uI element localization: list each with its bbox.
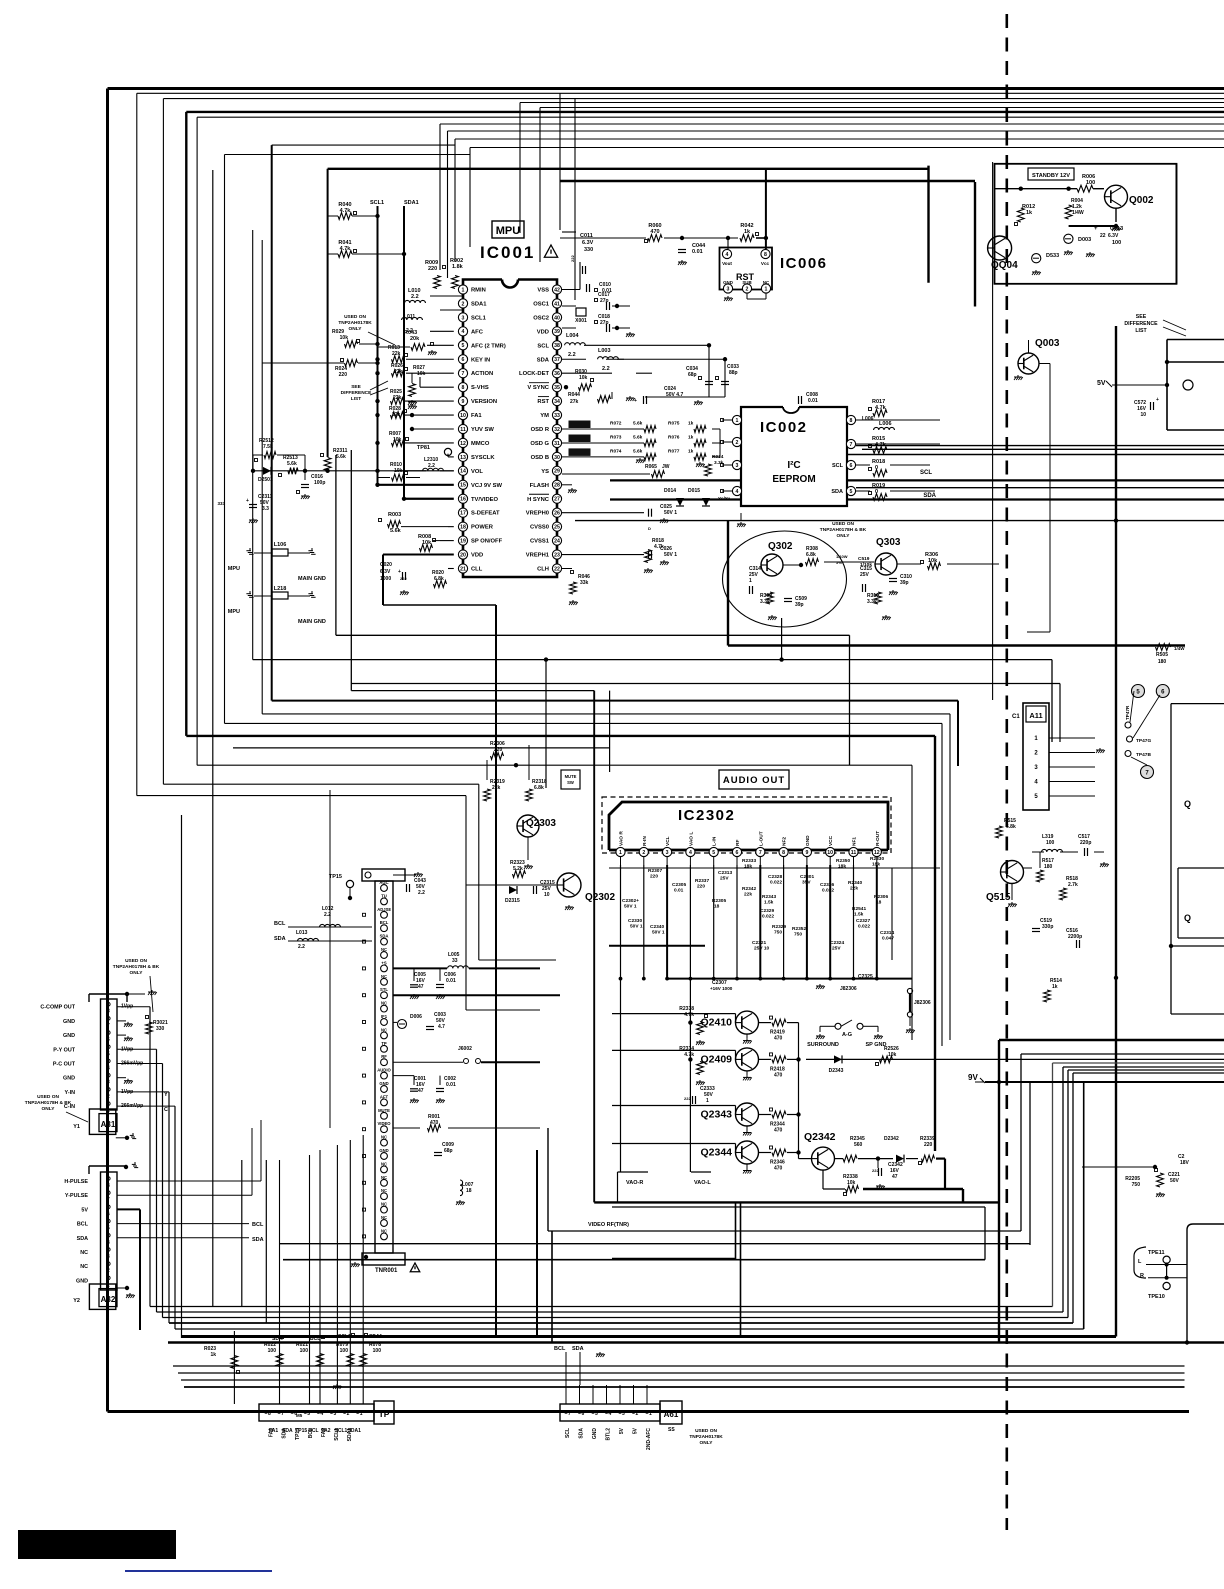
svg-text:1000: 1000 xyxy=(380,576,391,582)
svg-text:12: 12 xyxy=(460,441,466,447)
svg-text:AUDIO OUT: AUDIO OUT xyxy=(723,775,785,786)
svg-text:NC: NC xyxy=(381,1135,387,1140)
svg-text:VIDEO: VIDEO xyxy=(377,1121,391,1126)
svg-text:10k: 10k xyxy=(340,335,349,341)
svg-text:3.3k: 3.3k xyxy=(714,460,724,466)
svg-text:39: 39 xyxy=(554,329,560,335)
svg-text:ONLY: ONLY xyxy=(130,970,144,976)
svg-text:6.3V: 6.3V xyxy=(1108,233,1119,239)
svg-text:1/4W: 1/4W xyxy=(1072,210,1084,216)
svg-text:CLH: CLH xyxy=(537,567,549,573)
svg-text:SDA: SDA xyxy=(537,357,550,363)
svg-text:3.3: 3.3 xyxy=(262,506,269,512)
svg-text:C2329: C2329 xyxy=(760,908,774,914)
svg-text:100: 100 xyxy=(268,1348,277,1354)
svg-text:TNP2AH0178K: TNP2AH0178K xyxy=(689,1434,723,1440)
svg-text:0.022: 0.022 xyxy=(858,924,870,930)
svg-text:Q2410: Q2410 xyxy=(700,1017,732,1029)
svg-text:2: 2 xyxy=(636,1411,639,1417)
svg-text:1: 1 xyxy=(649,1411,652,1417)
svg-text:2: 2 xyxy=(736,440,739,446)
svg-text:GND: GND xyxy=(76,1278,88,1284)
svg-text:A32: A32 xyxy=(101,1295,116,1304)
svg-text:MPU: MPU xyxy=(228,566,240,572)
svg-text:VCL: VCL xyxy=(665,836,671,846)
svg-text:17: 17 xyxy=(460,511,466,517)
svg-text:3: 3 xyxy=(666,850,669,856)
svg-text:C2324: C2324 xyxy=(830,940,844,946)
svg-text:ONLY: ONLY xyxy=(837,533,851,539)
svg-text:L006: L006 xyxy=(862,416,874,422)
svg-text:3: 3 xyxy=(622,1411,625,1417)
svg-text:22k: 22k xyxy=(850,886,858,892)
svg-text:D2315: D2315 xyxy=(505,898,520,904)
svg-text:7: 7 xyxy=(107,1197,110,1203)
svg-text:SYSCLK: SYSCLK xyxy=(471,455,495,461)
svg-text:18: 18 xyxy=(460,525,466,531)
svg-text:Q: Q xyxy=(1184,913,1191,923)
svg-text:2: 2 xyxy=(746,286,749,292)
svg-text:Y-PULSE: Y-PULSE xyxy=(65,1193,88,1199)
svg-text:C020: C020 xyxy=(380,562,392,568)
svg-text:Q002: Q002 xyxy=(1129,195,1154,206)
svg-text:GND: GND xyxy=(592,1428,598,1440)
svg-text:R018: R018 xyxy=(872,459,885,465)
svg-text:39p: 39p xyxy=(795,602,804,608)
svg-text:Q2343: Q2343 xyxy=(700,1109,732,1121)
svg-text:R2330: R2330 xyxy=(870,856,884,862)
svg-text:BCL: BCL xyxy=(308,1428,314,1438)
svg-text:L003: L003 xyxy=(598,348,611,354)
svg-text:1k: 1k xyxy=(1026,210,1033,216)
svg-text:I²C: I²C xyxy=(787,460,800,471)
svg-text:D006: D006 xyxy=(410,1014,422,1020)
svg-text:C2325: C2325 xyxy=(858,974,873,980)
svg-text:Q2409: Q2409 xyxy=(700,1053,732,1065)
svg-text:SDA: SDA xyxy=(380,934,389,939)
svg-text:EEPROM: EEPROM xyxy=(772,474,815,485)
svg-text:Y-IN: Y-IN xyxy=(65,1090,76,1096)
svg-text:IC2302: IC2302 xyxy=(678,807,735,824)
svg-text:C2302+: C2302+ xyxy=(622,898,639,904)
svg-text:5: 5 xyxy=(712,850,715,856)
svg-text:2: 2 xyxy=(642,850,645,856)
svg-text:L011: L011 xyxy=(404,314,415,320)
svg-text:GND: GND xyxy=(805,835,811,846)
svg-text:SCL1: SCL1 xyxy=(370,200,384,206)
svg-text:TNP2AH0178K: TNP2AH0178K xyxy=(338,320,372,326)
svg-text:GND: GND xyxy=(63,1019,75,1025)
svg-text:GND: GND xyxy=(723,280,733,285)
svg-text:A61: A61 xyxy=(664,1410,679,1419)
svg-text:NF1: NF1 xyxy=(852,837,858,846)
svg-text:1/4W: 1/4W xyxy=(1174,646,1185,651)
svg-text:2: 2 xyxy=(107,1094,110,1100)
svg-text:X001: X001 xyxy=(575,318,587,324)
svg-text:25V: 25V xyxy=(860,572,870,578)
svg-text:14: 14 xyxy=(460,469,466,475)
svg-text:2.7k: 2.7k xyxy=(1068,882,1078,888)
svg-text:VAO L: VAO L xyxy=(688,832,694,846)
svg-text:P-C OUT: P-C OUT xyxy=(53,1062,76,1068)
svg-text:MMCO: MMCO xyxy=(471,441,490,447)
svg-text:7: 7 xyxy=(568,1411,571,1417)
svg-text:19: 19 xyxy=(460,538,466,544)
svg-text:USED ON: USED ON xyxy=(695,1428,717,1434)
svg-text:BCL: BCL xyxy=(252,1222,264,1228)
svg-text:R-IN: R-IN xyxy=(642,836,648,846)
svg-text:C-COMP OUT: C-COMP OUT xyxy=(40,1005,75,1011)
svg-text:P-Y OUT: P-Y OUT xyxy=(53,1047,75,1053)
svg-text:1: 1 xyxy=(462,287,465,293)
svg-text:50V 4.7: 50V 4.7 xyxy=(666,392,683,398)
svg-text:JW: JW xyxy=(662,464,670,470)
svg-text:330p: 330p xyxy=(1042,924,1053,930)
svg-text:34: 34 xyxy=(554,399,560,405)
svg-text:NC: NC xyxy=(381,1215,387,1220)
svg-text:100: 100 xyxy=(340,1348,349,1354)
svg-text:50V: 50V xyxy=(1170,1178,1180,1184)
svg-text:NC: NC xyxy=(381,1027,387,1032)
svg-text:SCL: SCL xyxy=(565,1428,571,1438)
svg-text:USED ON: USED ON xyxy=(125,958,147,964)
svg-text:3: 3 xyxy=(334,1411,337,1417)
svg-text:+: + xyxy=(1156,397,1159,403)
svg-text:5: 5 xyxy=(107,1226,110,1232)
svg-text:R075: R075 xyxy=(668,421,680,427)
svg-text:SDA: SDA xyxy=(831,489,843,495)
svg-text:100: 100 xyxy=(1046,840,1055,846)
svg-text:0.01: 0.01 xyxy=(446,978,456,984)
svg-text:16: 16 xyxy=(460,497,466,503)
svg-text:1: 1 xyxy=(736,418,739,424)
svg-text:1: 1 xyxy=(706,1098,709,1104)
svg-text:4.7k: 4.7k xyxy=(684,1052,694,1058)
svg-text:28: 28 xyxy=(554,483,560,489)
svg-text:Q003: Q003 xyxy=(1035,338,1060,349)
svg-text:22k: 22k xyxy=(492,785,501,791)
svg-text:2: 2 xyxy=(462,301,465,307)
svg-text:VREPH0: VREPH0 xyxy=(526,511,549,517)
svg-text:0.01: 0.01 xyxy=(692,249,703,255)
svg-text:R-OUT: R-OUT xyxy=(875,831,881,846)
svg-text:5.6k: 5.6k xyxy=(633,448,643,454)
svg-text:1k: 1k xyxy=(688,448,694,454)
svg-text:R2333: R2333 xyxy=(742,858,756,864)
svg-text:35: 35 xyxy=(554,385,560,391)
svg-text:5V: 5V xyxy=(633,1427,639,1434)
svg-text:H-PULSE: H-PULSE xyxy=(64,1179,88,1185)
svg-text:C2321: C2321 xyxy=(752,940,766,946)
svg-text:S-VHS: S-VHS xyxy=(471,385,489,391)
svg-text:RF: RF xyxy=(735,840,741,846)
svg-text:J82306: J82306 xyxy=(840,986,857,992)
svg-text:18k: 18k xyxy=(744,864,752,870)
svg-text:A31: A31 xyxy=(101,1120,116,1129)
svg-text:5%: 5% xyxy=(836,560,842,565)
svg-text:220: 220 xyxy=(650,874,658,880)
svg-text:23: 23 xyxy=(554,552,560,558)
svg-text:222: 222 xyxy=(400,576,407,581)
svg-text:50V 1: 50V 1 xyxy=(664,510,677,516)
svg-text:A-G: A-G xyxy=(842,1032,852,1038)
svg-text:R2307: R2307 xyxy=(648,868,662,874)
svg-text:27k: 27k xyxy=(570,399,579,405)
svg-text:21: 21 xyxy=(460,566,466,572)
svg-text:5.6k: 5.6k xyxy=(336,454,346,460)
svg-text:32: 32 xyxy=(554,427,560,433)
svg-text:USED ON: USED ON xyxy=(37,1094,59,1100)
svg-text:D: D xyxy=(648,526,651,531)
svg-text:SDA: SDA xyxy=(579,1428,585,1439)
svg-text:NC: NC xyxy=(80,1264,88,1270)
svg-text:22: 22 xyxy=(1100,233,1106,239)
svg-text:TP: TP xyxy=(379,1409,390,1419)
svg-text:10: 10 xyxy=(1140,412,1146,418)
svg-text:5.6k: 5.6k xyxy=(287,461,297,467)
svg-text:15: 15 xyxy=(460,483,466,489)
svg-text:SUB: SUB xyxy=(742,280,751,285)
svg-text:RMIN: RMIN xyxy=(471,288,486,294)
svg-text:5: 5 xyxy=(595,1411,598,1417)
svg-text:0.022: 0.022 xyxy=(770,880,782,886)
svg-text:SCL1: SCL1 xyxy=(471,315,487,321)
svg-text:8: 8 xyxy=(764,252,767,258)
svg-text:C: C xyxy=(164,1107,168,1113)
svg-text:R2337: R2337 xyxy=(695,878,709,884)
svg-text:1: 1 xyxy=(749,578,752,584)
svg-text:BCL: BCL xyxy=(274,921,286,927)
svg-text:1/10W: 1/10W xyxy=(836,554,848,559)
svg-text:C2327: C2327 xyxy=(856,918,870,924)
svg-text:+S: +S xyxy=(381,960,386,965)
svg-text:FA1: FA1 xyxy=(269,1428,275,1437)
svg-text:2.2: 2.2 xyxy=(411,294,419,300)
svg-text:50V 1: 50V 1 xyxy=(664,552,677,558)
svg-text:R065: R065 xyxy=(645,464,657,470)
svg-text:12: 12 xyxy=(874,850,880,856)
svg-text:0.022: 0.022 xyxy=(762,914,774,920)
svg-text:Q: Q xyxy=(1184,799,1191,809)
svg-text:2.2: 2.2 xyxy=(298,944,305,950)
svg-text:VAO-L: VAO-L xyxy=(694,1180,711,1186)
svg-text:C2305: C2305 xyxy=(672,882,686,888)
svg-text:20k: 20k xyxy=(410,336,420,342)
svg-text:9: 9 xyxy=(462,399,465,405)
svg-text:220: 220 xyxy=(697,884,705,890)
svg-text:2: 2 xyxy=(347,1411,350,1417)
svg-text:SDA: SDA xyxy=(252,1237,264,1243)
svg-text:TP: TP xyxy=(381,1041,387,1046)
svg-text:D015: D015 xyxy=(688,488,700,494)
svg-text:5.6k: 5.6k xyxy=(390,528,402,534)
svg-text:6: 6 xyxy=(107,1037,110,1043)
svg-text:5V: 5V xyxy=(1097,380,1106,387)
svg-text:LIST: LIST xyxy=(351,396,361,402)
svg-text:5: 5 xyxy=(462,343,465,349)
svg-text:4: 4 xyxy=(689,850,692,856)
svg-text:SCL: SCL xyxy=(537,343,549,349)
svg-text:5V: 5V xyxy=(81,1207,88,1213)
svg-text:9V: 9V xyxy=(968,1073,978,1082)
svg-text:13: 13 xyxy=(460,455,466,461)
svg-text:TP81: TP81 xyxy=(417,445,430,451)
svg-text:10k: 10k xyxy=(417,371,426,377)
svg-text:NC: NC xyxy=(763,280,770,285)
svg-text:100: 100 xyxy=(1086,180,1095,186)
svg-text:27: 27 xyxy=(554,497,560,503)
svg-text:4: 4 xyxy=(726,252,729,258)
svg-text:L-IN: L-IN xyxy=(712,836,718,846)
svg-text:470: 470 xyxy=(774,1166,783,1172)
svg-text:AFC (2 TMR): AFC (2 TMR) xyxy=(471,343,506,349)
svg-text:22k: 22k xyxy=(744,892,752,898)
svg-text:IC001: IC001 xyxy=(480,243,535,262)
svg-text:3.3k: 3.3k xyxy=(867,599,877,605)
svg-text:D533: D533 xyxy=(1046,253,1059,259)
svg-text:R077: R077 xyxy=(668,448,680,454)
svg-text:ONLY: ONLY xyxy=(700,1440,714,1446)
svg-text:TPE11: TPE11 xyxy=(1148,1250,1165,1256)
svg-text:31: 31 xyxy=(554,441,560,447)
svg-text:4: 4 xyxy=(736,489,739,495)
svg-text:VSS: VSS xyxy=(537,288,549,294)
svg-text:330: 330 xyxy=(584,247,593,253)
svg-text:AUDIO: AUDIO xyxy=(377,1068,391,1073)
svg-text:MAIN GND: MAIN GND xyxy=(298,576,326,582)
svg-text:50V 1: 50V 1 xyxy=(630,924,643,930)
svg-text:0.01: 0.01 xyxy=(674,888,684,894)
svg-text:6: 6 xyxy=(850,463,853,469)
svg-text:SW: SW xyxy=(567,780,574,785)
svg-text:R2329: R2329 xyxy=(772,924,786,930)
svg-text:C2313: C2313 xyxy=(718,870,732,876)
svg-text:R003: R003 xyxy=(388,512,401,518)
svg-text:20: 20 xyxy=(460,552,466,558)
svg-text:26: 26 xyxy=(554,511,560,517)
svg-text:SDA1: SDA1 xyxy=(404,200,419,206)
svg-text:39p: 39p xyxy=(900,580,909,586)
svg-text:10: 10 xyxy=(460,413,466,419)
svg-text:222: 222 xyxy=(872,1168,879,1173)
svg-text:41: 41 xyxy=(554,301,560,307)
svg-text:SDA: SDA xyxy=(572,1346,584,1352)
svg-text:D003: D003 xyxy=(1078,237,1091,243)
svg-text:TV/VIDEO: TV/VIDEO xyxy=(471,497,499,503)
svg-text:D014: D014 xyxy=(664,488,676,494)
svg-text:SDA: SDA xyxy=(282,1428,288,1439)
svg-text:TNR001: TNR001 xyxy=(375,1268,398,1274)
svg-text:5V: 5V xyxy=(619,1427,625,1434)
svg-text:USED ON: USED ON xyxy=(832,521,854,527)
svg-text:40: 40 xyxy=(554,315,560,321)
svg-text:L006: L006 xyxy=(879,421,892,427)
svg-text:4: 4 xyxy=(107,1240,110,1246)
svg-text:SDA: SDA xyxy=(923,493,936,499)
svg-text:2.2: 2.2 xyxy=(568,352,576,358)
svg-text:2ND-AFC: 2ND-AFC xyxy=(646,1428,652,1450)
svg-text:L218: L218 xyxy=(274,586,287,592)
svg-text:SURROUND: SURROUND xyxy=(807,1042,839,1048)
svg-text:SEE: SEE xyxy=(1136,314,1147,320)
svg-text:NC: NC xyxy=(381,947,387,952)
svg-text:27p: 27p xyxy=(600,320,609,326)
svg-text:33k: 33k xyxy=(580,580,589,586)
svg-text:VREPH1: VREPH1 xyxy=(526,553,550,559)
svg-text:SCL: SCL xyxy=(920,470,932,476)
svg-text:M5: M5 xyxy=(296,1413,303,1418)
svg-text:BTL2: BTL2 xyxy=(606,1428,612,1441)
svg-text:SEE: SEE xyxy=(351,384,361,390)
svg-text:SS: SS xyxy=(668,1427,675,1433)
svg-text:Ys/Yu: Ys/Yu xyxy=(718,496,731,501)
svg-text:10k: 10k xyxy=(928,558,938,564)
svg-text:GND: GND xyxy=(63,1033,75,1039)
svg-text:BCL: BCL xyxy=(77,1222,89,1228)
svg-text:Vcc: Vcc xyxy=(761,261,770,266)
svg-text:Q2342: Q2342 xyxy=(804,1131,836,1143)
svg-text:SDA1: SDA1 xyxy=(347,1428,353,1442)
svg-text:TP47R: TP47R xyxy=(1125,705,1130,720)
svg-text:L004: L004 xyxy=(566,333,579,339)
svg-text:TP47G: TP47G xyxy=(1136,738,1151,744)
svg-text:220: 220 xyxy=(924,1142,933,1148)
svg-text:TPE10: TPE10 xyxy=(1148,1294,1165,1300)
svg-text:+: + xyxy=(634,398,637,404)
svg-text:IC006: IC006 xyxy=(780,255,828,272)
svg-text:SDA: SDA xyxy=(77,1236,88,1242)
svg-text:11: 11 xyxy=(460,427,466,433)
svg-text:1.5k: 1.5k xyxy=(764,900,774,906)
svg-text:18: 18 xyxy=(466,1188,472,1194)
svg-text:4.7k: 4.7k xyxy=(684,1012,694,1018)
svg-text:18k: 18k xyxy=(838,864,846,870)
svg-text:VDD: VDD xyxy=(537,329,549,335)
svg-text:6: 6 xyxy=(736,850,739,856)
svg-text:OSD G: OSD G xyxy=(530,441,549,447)
svg-text:GND: GND xyxy=(379,1148,388,1153)
svg-text:AFC: AFC xyxy=(471,329,484,335)
svg-text:1: 1 xyxy=(360,1411,363,1417)
svg-text:8: 8 xyxy=(850,418,853,424)
svg-text:3: 3 xyxy=(736,463,739,469)
svg-text:SDA: SDA xyxy=(272,1336,283,1342)
svg-text:3: 3 xyxy=(107,1080,110,1086)
svg-text:1k: 1k xyxy=(744,229,751,235)
svg-text:100: 100 xyxy=(300,1348,309,1354)
svg-text:5.6k: 5.6k xyxy=(633,435,643,441)
svg-text:QQ04: QQ04 xyxy=(991,260,1018,271)
svg-text:4.7: 4.7 xyxy=(438,1024,445,1030)
svg-text:0.01: 0.01 xyxy=(446,1082,456,1088)
svg-text:10: 10 xyxy=(544,892,550,898)
svg-text:NC: NC xyxy=(381,1188,387,1193)
svg-text:29: 29 xyxy=(554,469,560,475)
svg-text:11: 11 xyxy=(851,850,857,856)
svg-text:4: 4 xyxy=(462,329,465,335)
svg-text:180: 180 xyxy=(1044,864,1053,870)
svg-text:BCL: BCL xyxy=(310,1336,320,1342)
svg-text:DIFFERENCE: DIFFERENCE xyxy=(1124,321,1158,327)
svg-text:2: 2 xyxy=(107,1268,110,1274)
svg-text:1.5k: 1.5k xyxy=(854,912,864,918)
svg-text:47: 47 xyxy=(418,984,424,990)
svg-text:560: 560 xyxy=(854,1142,863,1148)
svg-text:SDA: SDA xyxy=(274,936,286,942)
svg-text:STANDBY 12V: STANDBY 12V xyxy=(1032,173,1070,179)
svg-text:TNP2AH0178H & BK: TNP2AH0178H & BK xyxy=(25,1100,72,1106)
svg-text:1: 1 xyxy=(765,286,768,292)
